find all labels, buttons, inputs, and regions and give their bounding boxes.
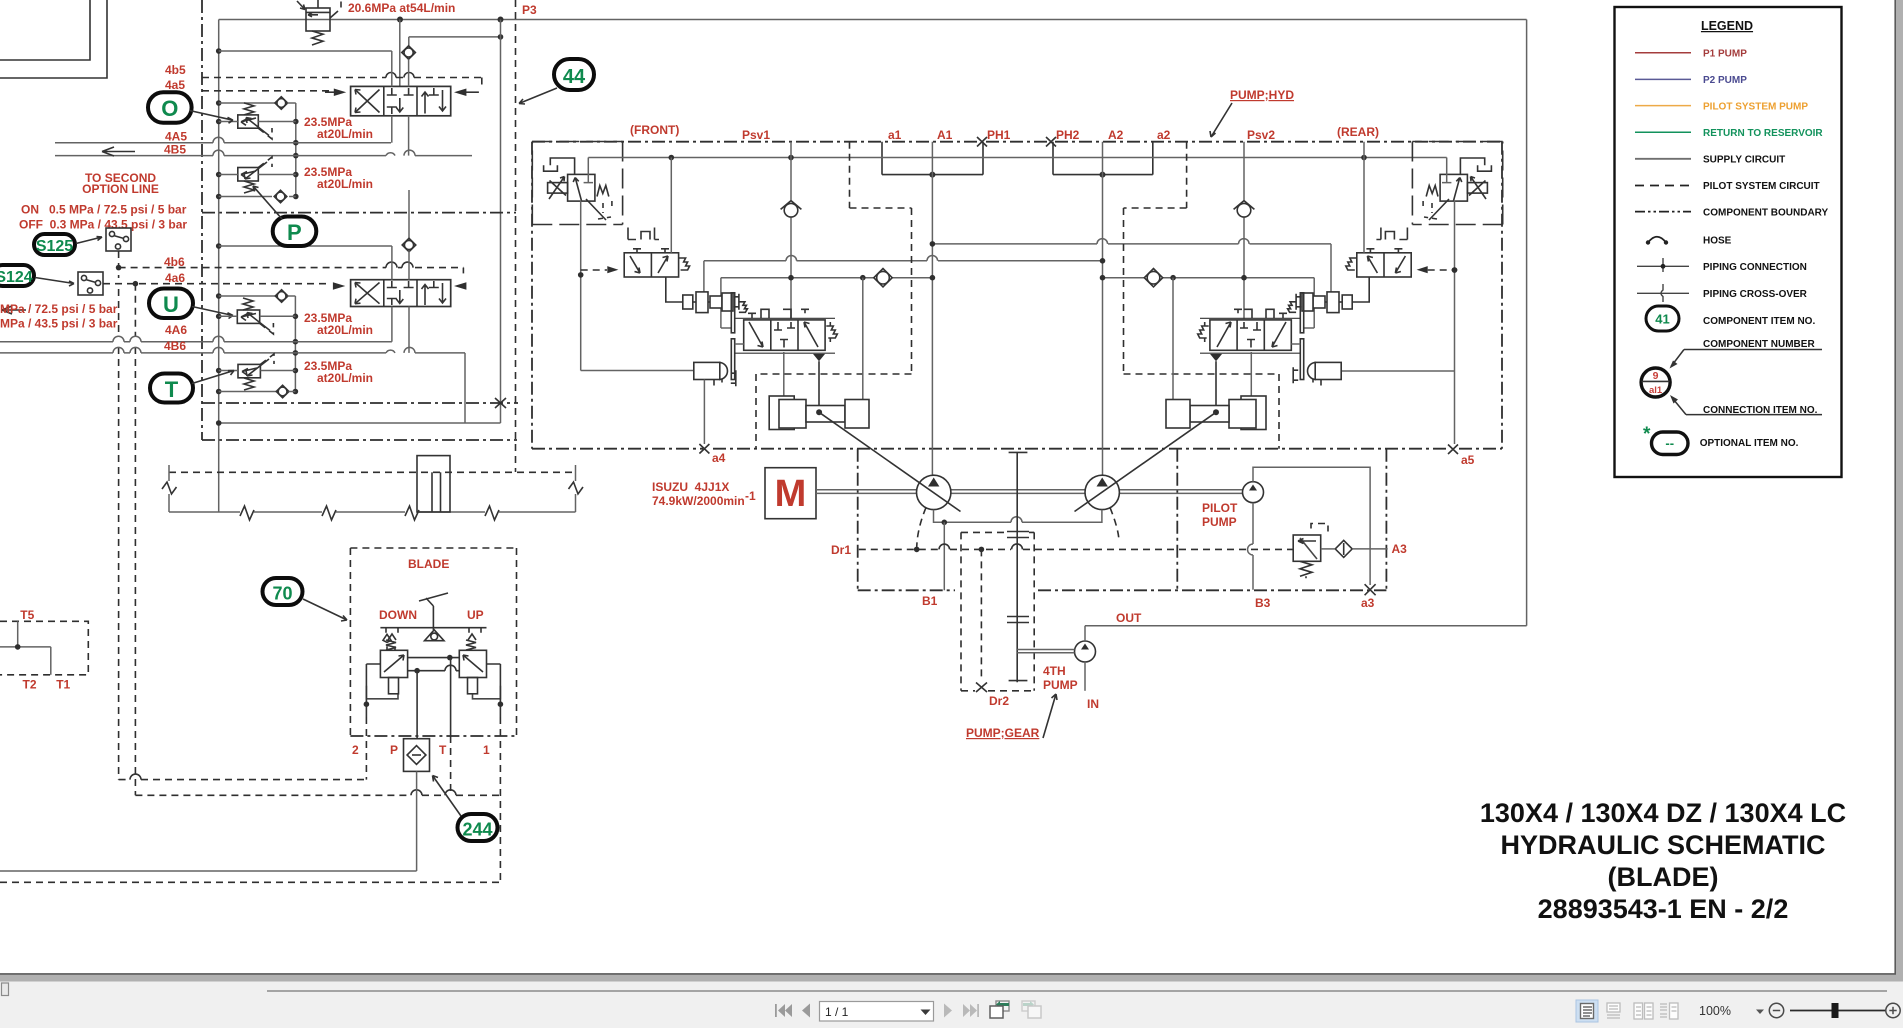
main pump 2 <box>1085 475 1119 509</box>
Psv2 vertical into 3way <box>1363 158 1365 253</box>
main pump 1 <box>917 475 951 509</box>
leader 70 <box>303 599 347 621</box>
svg-text:130X4 / 130X4 DZ / 130X4 LC: 130X4 / 130X4 DZ / 130X4 LC <box>1480 798 1846 828</box>
svg-text:(FRONT): (FRONT) <box>630 123 679 137</box>
component boundary vertical left <box>201 0 203 440</box>
crossover line A1-to-rear <box>932 243 1331 245</box>
svg-text:PUMP;GEAR: PUMP;GEAR <box>966 726 1040 740</box>
svg-text:4a5: 4a5 <box>165 78 185 92</box>
check valve T <box>276 385 289 398</box>
relief top stubs <box>318 0 341 8</box>
Psv1 pilot vertical <box>790 142 792 319</box>
nav: next page <box>944 1004 952 1018</box>
svg-text:B1: B1 <box>922 594 938 608</box>
dashed return line y=779.6 <box>119 779 367 781</box>
svg-text:a5: a5 <box>1461 453 1475 467</box>
valve1 ports down <box>391 116 393 143</box>
tank fitting box <box>417 456 450 512</box>
port 2 drop dashed <box>365 717 367 780</box>
svg-text:COMPONENT BOUNDARY: COMPONENT BOUNDARY <box>1703 207 1829 218</box>
svg-text:BLADE: BLADE <box>408 557 449 571</box>
svg-text:PUMP: PUMP <box>1043 678 1078 692</box>
solenoid stems <box>389 678 399 694</box>
pilot dashed vertical x=516 <box>515 0 517 472</box>
compensator valve FRONT <box>568 174 595 201</box>
valve2 port P with check <box>408 190 410 240</box>
B3 drain vertical <box>1248 503 1254 590</box>
next view icon (disabled) <box>1022 1001 1041 1018</box>
a5 feed vertical <box>1454 371 1456 444</box>
item 244 oval <box>458 814 498 841</box>
legend supply circuit line <box>1635 158 1691 160</box>
svg-text:UP: UP <box>467 608 484 622</box>
svg-text:at20L/min: at20L/min <box>317 323 373 337</box>
zoom out circle <box>1769 1003 1783 1017</box>
P3 supply line <box>219 19 1527 21</box>
compensator valve REAR <box>1440 174 1467 201</box>
svg-text:RETURN TO RESERVOIR: RETURN TO RESERVOIR <box>1703 128 1823 139</box>
OUT riser <box>1084 626 1086 641</box>
4b5 pilot dashed <box>202 77 482 79</box>
svg-text:at20L/min: at20L/min <box>317 177 373 191</box>
T port inside valve FRONT <box>584 158 593 183</box>
valve1 left pilot arrow <box>334 89 346 97</box>
collector vertical U/T rows <box>294 296 296 392</box>
svg-text:COMPONENT ITEM NO.: COMPONENT ITEM NO. <box>1703 316 1815 327</box>
item 70 oval <box>263 578 303 605</box>
relief diagonal REAR comp <box>1429 199 1449 220</box>
gear mesh bars <box>1007 532 1029 623</box>
svg-text:ISUZU 4JJ1X: ISUZU 4JJ1X <box>652 480 729 494</box>
leader S125 <box>76 237 102 244</box>
leader 44 <box>519 88 557 104</box>
legend P2 pump line <box>1635 78 1691 80</box>
svg-text:at20L/min: at20L/min <box>317 371 373 385</box>
svg-text:PUMP;HYD: PUMP;HYD <box>1230 88 1294 102</box>
svg-text:S124: S124 <box>0 269 33 286</box>
W spring REAR comp <box>1426 186 1438 197</box>
svg-text:P1 PUMP: P1 PUMP <box>1703 49 1747 60</box>
svg-text:1: 1 <box>483 743 490 757</box>
return line bottom <box>219 422 501 424</box>
blade valve left (DOWN) <box>380 650 407 677</box>
A2 supply vertical to pump <box>1102 142 1104 475</box>
legend pilot system pump line <box>1635 105 1691 107</box>
toolbar background <box>0 982 1903 1028</box>
legend P1 pump line <box>1635 52 1691 54</box>
valve B port down REAR <box>1215 361 1217 411</box>
svg-text:T: T <box>165 377 179 402</box>
pilot cap lines above 3way REAR <box>1376 228 1407 240</box>
svg-text:(BLADE): (BLADE) <box>1608 862 1719 892</box>
inner pilot dashed box FRONT <box>756 142 912 449</box>
check valve P <box>274 190 287 203</box>
svg-text:Psv2: Psv2 <box>1247 128 1275 142</box>
svg-text:PH2: PH2 <box>1056 128 1080 142</box>
REAR inner compensator box <box>1412 142 1502 225</box>
svg-text:100%: 100% <box>1699 1004 1731 1018</box>
svg-text:S125: S125 <box>36 238 73 255</box>
piping cross Dr2 <box>976 683 987 693</box>
leader 244 <box>433 776 462 817</box>
corner down to piston stack REAR <box>1330 244 1332 293</box>
main valve FRONT <box>735 318 837 353</box>
svg-text:PILOT: PILOT <box>1202 501 1238 515</box>
T5 internals <box>0 621 51 675</box>
pressure switch 2 <box>78 272 103 295</box>
directional valve 1 <box>351 86 451 115</box>
a1 port loop <box>882 142 983 175</box>
svg-text:OPTION LINE: OPTION LINE <box>82 182 159 196</box>
svg-text:A2: A2 <box>1108 128 1124 142</box>
4B5 work line <box>55 155 472 157</box>
dashed bracket FRONT comp <box>603 201 612 213</box>
leader U <box>192 307 233 319</box>
svg-text:(REAR): (REAR) <box>1337 125 1379 139</box>
svg-text:PIPING CROSS-OVER: PIPING CROSS-OVER <box>1703 289 1808 300</box>
pilot dashed vertical 2 to blade <box>134 284 136 796</box>
cylinder REAR <box>1166 396 1266 430</box>
component boundary lower divider <box>202 402 518 404</box>
svg-text:P: P <box>287 220 302 245</box>
relief valve U <box>237 310 259 323</box>
pilot filter diamond <box>1335 540 1352 557</box>
valve link line 2 <box>408 670 460 672</box>
pilot bar <box>380 628 486 633</box>
pump drain dashed curves <box>917 508 926 550</box>
svg-text:9: 9 <box>1653 370 1659 382</box>
wire top of row2 <box>219 245 392 247</box>
leader S124 <box>35 278 74 287</box>
layout icon 4 <box>1660 1003 1678 1019</box>
svg-text:244: 244 <box>462 820 492 840</box>
svg-text:Psv1: Psv1 <box>742 128 770 142</box>
zoom in circle <box>1886 1003 1900 1017</box>
junction dots on x=218.7 <box>216 48 222 426</box>
pilot caps on valve top REAR <box>1234 309 1287 318</box>
pilot pump top loop <box>1253 467 1370 585</box>
dashed bracket REAR comp <box>1423 201 1432 213</box>
prev view icon <box>990 1001 1009 1018</box>
pilot arrow into 3way <box>607 266 618 273</box>
collector vertical O/P rows <box>295 103 297 197</box>
legend return to reservoir line <box>1635 131 1691 133</box>
svg-text:70: 70 <box>272 584 292 604</box>
page border right <box>1894 0 1896 974</box>
svg-text:PUMP: PUMP <box>1202 515 1237 529</box>
item 44 oval <box>554 59 594 90</box>
svg-text:ON 0.5 MPa / 72.5 psi / 5 ba: ON 0.5 MPa / 72.5 psi / 5 bar <box>21 203 187 217</box>
piping cross a4 <box>699 444 709 454</box>
nav: prev page <box>802 1004 810 1018</box>
svg-text:T: T <box>439 743 447 757</box>
valve2 port A up <box>391 246 393 280</box>
valve arrow FRONT <box>573 178 581 201</box>
4th pump shaft double <box>1017 650 1074 653</box>
zoom slider <box>1790 1010 1886 1012</box>
joystick lever <box>419 593 448 630</box>
FRONT work line y=277.7 <box>721 277 933 279</box>
component boundary mid divider <box>202 212 516 214</box>
top-left corner box outer <box>0 0 107 78</box>
Psv2 pilot vertical with check <box>1243 142 1245 319</box>
A1 supply vertical to pump <box>931 142 933 475</box>
pump assembly boundary right piece <box>1176 449 1178 591</box>
pressure switch 1 <box>106 228 131 251</box>
valve port plates FRONT <box>731 293 734 333</box>
legend piping cross-over symbol <box>1637 292 1689 294</box>
svg-text:74.9kW/2000min: 74.9kW/2000min <box>652 494 745 508</box>
4a5 pilot dashed <box>202 90 332 92</box>
svg-text:A1: A1 <box>937 128 953 142</box>
top-left corner box inner <box>0 0 90 60</box>
item P oval <box>273 217 317 247</box>
legend box <box>1615 7 1842 477</box>
pilot dashed vertical to blade left <box>118 251 120 780</box>
item S124 oval <box>0 265 34 286</box>
svg-text:IN: IN <box>1087 697 1099 711</box>
check triangle below valve <box>813 354 825 361</box>
svg-text:4TH: 4TH <box>1043 664 1066 678</box>
pilot relief valve <box>1293 535 1321 561</box>
boundary bottom shared <box>532 448 1502 450</box>
blade valve right (UP) <box>459 650 486 677</box>
shaft to pilot pump <box>1119 490 1243 494</box>
right port vertical <box>487 664 501 717</box>
svg-text:OUT: OUT <box>1116 611 1142 625</box>
component boundary bottom <box>202 439 517 441</box>
solenoid 3-way valve REAR <box>1346 249 1411 277</box>
line to solenoid REAR <box>1342 370 1455 372</box>
pilot bracket FRONT <box>544 158 575 174</box>
svg-text:a3: a3 <box>1361 596 1375 610</box>
svg-text:U: U <box>163 292 179 317</box>
piping cross a5 <box>1448 445 1458 455</box>
page number box <box>820 1002 934 1022</box>
wire 3way to piston stack REAR <box>1352 277 1369 302</box>
leader P <box>253 186 282 219</box>
item U oval <box>149 289 193 319</box>
4A5 work line <box>55 142 391 144</box>
svg-text:PILOT SYSTEM CIRCUIT: PILOT SYSTEM CIRCUIT <box>1703 181 1820 192</box>
corner down to piston stack <box>703 261 705 293</box>
P feed vertical <box>416 671 418 739</box>
corner down to valve port REAR <box>1313 278 1315 328</box>
pilot caps on valve top <box>748 309 809 318</box>
valve2 right pilot arrow <box>454 282 466 289</box>
separator line <box>267 990 1887 992</box>
wire 3way to piston stack FRONT <box>666 277 683 302</box>
leader PUMP;GEAR <box>1043 694 1057 738</box>
svg-text:A3: A3 <box>1392 542 1408 556</box>
legend hose symbol <box>1646 240 1650 244</box>
wire P valve1 feed <box>399 20 401 87</box>
FRONT inner compensator box <box>532 142 622 225</box>
supply vertical x=218.7 <box>218 20 220 513</box>
svg-text:P3: P3 <box>522 3 537 17</box>
svg-text:PH1: PH1 <box>987 128 1011 142</box>
svg-text:Dr1: Dr1 <box>831 543 851 557</box>
T return vertical <box>450 658 452 736</box>
wire 4b5 feed from relief branch <box>409 37 501 46</box>
svg-text:--: -- <box>1665 436 1674 451</box>
check valve on Psv1 <box>784 203 798 217</box>
relief valve T <box>238 364 260 377</box>
relief diagonal FRONT comp <box>586 199 606 220</box>
pilot piston stack FRONT <box>683 292 748 313</box>
relief valve O <box>238 115 258 128</box>
Dr2 drain dashed vertical <box>980 549 982 681</box>
filter under blade <box>404 739 430 772</box>
svg-text:2: 2 <box>352 743 359 757</box>
swash diagonal to pump REAR <box>1075 412 1217 511</box>
orifice box FRONT <box>548 183 568 194</box>
4th pump circle <box>1075 641 1096 662</box>
U row check line <box>219 295 276 297</box>
svg-text:1 / 1: 1 / 1 <box>825 1005 849 1019</box>
legend connection item no pointer <box>1686 414 1822 416</box>
shaft between pumps <box>951 490 1086 494</box>
B1 drain vertical <box>943 522 945 590</box>
valve1 port A up <box>391 51 393 86</box>
swash diagonal to pump <box>819 412 960 511</box>
svg-text:OPTIONAL ITEM NO.: OPTIONAL ITEM NO. <box>1700 438 1799 449</box>
svg-text:B3: B3 <box>1255 596 1271 610</box>
orifice box REAR <box>1467 183 1487 194</box>
4b6 pilot dashed <box>119 267 464 269</box>
check valve mid REAR <box>1144 269 1162 287</box>
left spring <box>386 640 396 650</box>
svg-text:SUPPLY CIRCUIT: SUPPLY CIRCUIT <box>1703 155 1785 166</box>
nav: first page <box>775 1004 792 1017</box>
piping cross on boundary <box>495 398 506 408</box>
T row check line <box>219 391 277 393</box>
line compensator down <box>580 201 582 371</box>
item S125 oval <box>34 234 75 255</box>
line to solenoid <box>581 370 695 372</box>
item O oval <box>148 92 192 123</box>
legend component boundary line <box>1635 211 1691 213</box>
svg-text:P: P <box>390 743 398 757</box>
svg-text:COMPONENT NUMBER: COMPONENT NUMBER <box>1703 339 1815 350</box>
svg-text:4A6: 4A6 <box>165 323 187 337</box>
vertical into 3way from supply <box>670 158 672 253</box>
svg-text:MPa / 72.5 psi / 5 bar: MPa / 72.5 psi / 5 bar <box>0 302 118 316</box>
app gray background right strip <box>1896 0 1903 982</box>
check triangle below valve REAR <box>1210 354 1222 361</box>
solenoid block FRONT <box>694 362 736 386</box>
layout icon 1 (active) <box>1576 1000 1598 1022</box>
svg-text:OFF 0.3 MPa / 43.5 psi / 3 ba: OFF 0.3 MPa / 43.5 psi / 3 bar <box>19 218 187 232</box>
valve2 ports down <box>391 307 393 342</box>
svg-text:T5: T5 <box>20 608 34 622</box>
svg-text:HOSE: HOSE <box>1703 235 1732 246</box>
O row check line <box>219 102 276 104</box>
svg-text:4A5: 4A5 <box>165 130 187 144</box>
check valve mid FRONT <box>874 269 892 287</box>
leader O <box>190 111 234 124</box>
valve A port down REAR <box>1250 352 1252 398</box>
svg-text:PIPING CONNECTION: PIPING CONNECTION <box>1703 262 1807 273</box>
relief valve P <box>238 168 258 182</box>
port 1 drop dashed <box>499 717 501 882</box>
port T drop <box>450 736 452 795</box>
svg-text:LEGEND: LEGEND <box>1701 19 1753 33</box>
pilot pump circle <box>1243 482 1264 503</box>
leader T <box>192 371 234 384</box>
legend piping connection symbol <box>1637 265 1689 267</box>
svg-text:PILOT SYSTEM PUMP: PILOT SYSTEM PUMP <box>1703 101 1808 112</box>
svg-text:HYDRAULIC SCHEMATIC: HYDRAULIC SCHEMATIC <box>1501 830 1826 860</box>
Dr1 dashed drain line <box>859 548 1293 550</box>
wire to cylinder rod REAR <box>1172 278 1174 400</box>
line compensator down REAR <box>1454 201 1456 372</box>
svg-text:4a6: 4a6 <box>165 271 185 285</box>
svg-text:a2: a2 <box>1157 128 1171 142</box>
boundary right vertical REAR <box>1501 142 1503 449</box>
break marks on tank line <box>240 506 499 520</box>
small page icon bottom-left <box>2 983 9 996</box>
svg-text:4b5: 4b5 <box>165 63 186 77</box>
svg-text:T1: T1 <box>56 678 70 692</box>
arrow to second option <box>102 147 135 156</box>
A3 line <box>1352 548 1388 550</box>
valve1 right pilot arrow <box>454 89 466 97</box>
valve2 left pilot arrow <box>333 282 345 289</box>
nav: last page <box>963 1004 979 1017</box>
pilot bracket REAR <box>1460 158 1491 174</box>
svg-text:a1: a1 <box>888 128 902 142</box>
svg-text:MPa / 43.5 psi / 3 bar: MPa / 43.5 psi / 3 bar <box>0 317 118 331</box>
solenoid block REAR <box>1293 362 1341 385</box>
pump assembly boundary left <box>857 449 859 591</box>
dashed line y=795.3 <box>135 794 500 796</box>
motor shaft double line <box>816 490 917 494</box>
a3 cross <box>1365 584 1376 595</box>
relief valve top (20.6MPa) <box>306 8 330 31</box>
svg-text:Dr2: Dr2 <box>989 694 1009 708</box>
svg-text:a4: a4 <box>712 451 726 465</box>
svg-text:4B5: 4B5 <box>164 143 186 157</box>
filter outlet vertical <box>416 771 418 871</box>
svg-text:O: O <box>161 96 178 121</box>
crossover line front-to-A2 <box>704 260 1103 262</box>
node on P3 line <box>498 17 504 23</box>
tank line end verticals with breaks <box>169 465 576 512</box>
cylinder FRONT <box>769 396 869 430</box>
T port inside valve REAR <box>1442 158 1451 183</box>
svg-text:44: 44 <box>563 66 586 88</box>
layout icon 3 <box>1634 1003 1653 1019</box>
leader PUMP;HYD <box>1210 103 1232 137</box>
inner pilot dashed box REAR <box>1124 142 1280 449</box>
pilot boundary top dashed with ports <box>532 141 1502 143</box>
arrow left edge <box>2 306 26 314</box>
pilot arrow into 3way REAR <box>1417 266 1428 273</box>
piping cross PH1 <box>977 137 987 147</box>
svg-text:20.6MPa at54L/min: 20.6MPa at54L/min <box>348 1 455 15</box>
sub tank box T5 dashed <box>0 621 88 675</box>
valve port plates REAR <box>1300 293 1303 333</box>
pilot cap lines above 3way <box>628 228 659 240</box>
motor M box <box>765 468 816 519</box>
solenoid 3-way valve FRONT <box>624 249 689 277</box>
valve link line 1 <box>408 657 460 659</box>
app gray background bottom strip / horizontal scrollbar <box>0 974 1903 982</box>
legend pilot system circuit line <box>1635 185 1691 187</box>
IN drop <box>1084 662 1086 691</box>
svg-text:at20L/min: at20L/min <box>317 127 373 141</box>
